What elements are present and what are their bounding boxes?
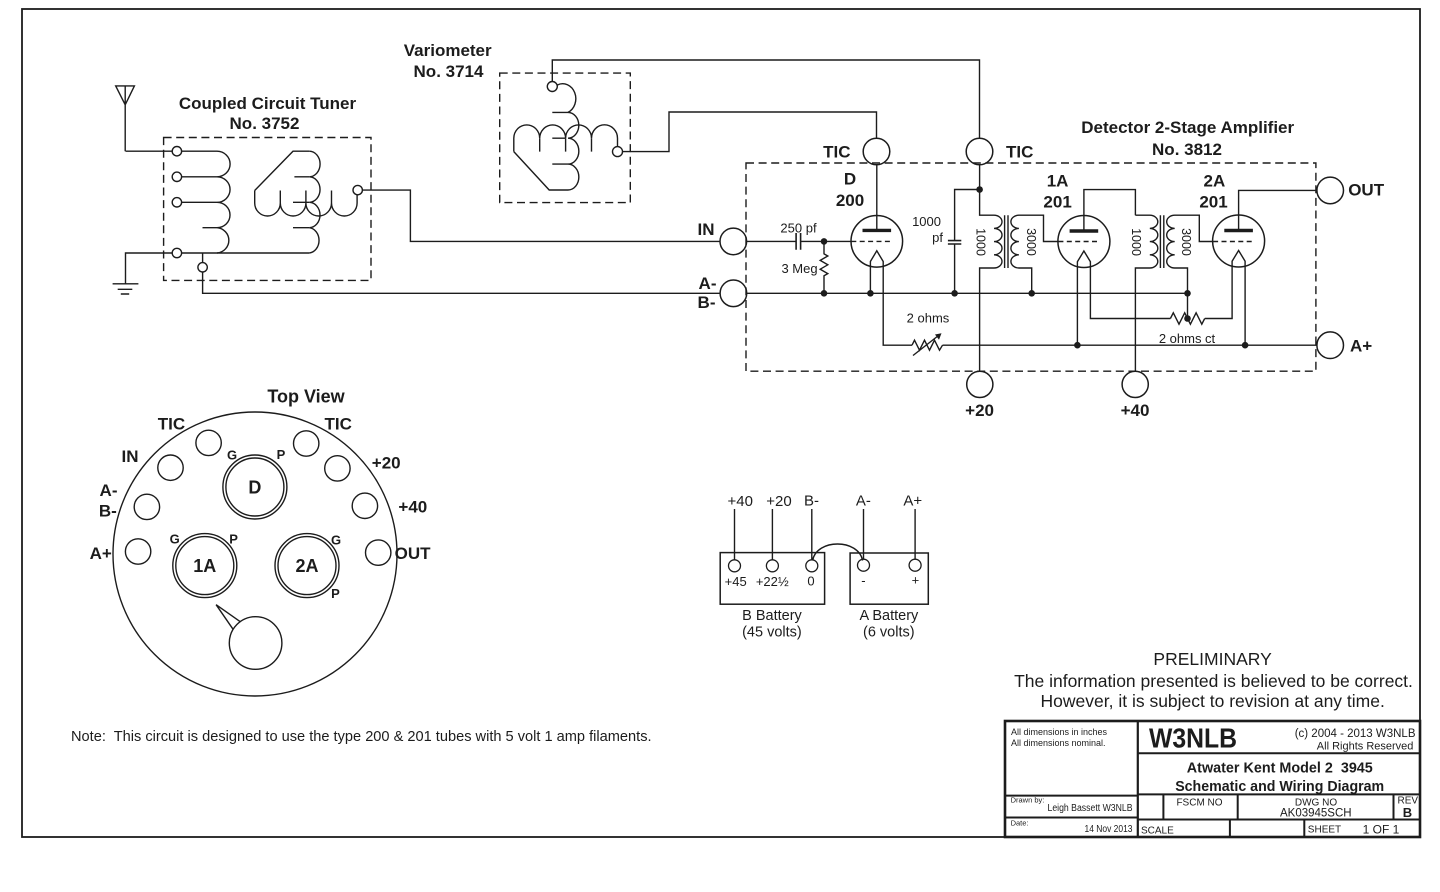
svg-text:No. 3812: No. 3812 <box>1152 140 1222 159</box>
tuner terminal 3 <box>172 198 181 207</box>
B battery terminal 0 <box>806 560 818 572</box>
jumper wire B- to A- <box>813 544 863 561</box>
svg-text:200: 200 <box>836 191 864 210</box>
svg-text:No. 3752: No. 3752 <box>230 114 300 133</box>
wire variometer right to TIC1 <box>623 112 877 152</box>
top view pin A-/B- <box>134 494 159 519</box>
wire A-/B- bus <box>747 292 1188 294</box>
title block outer border <box>1005 721 1420 837</box>
top view socket 1A <box>173 534 237 598</box>
svg-text:+40: +40 <box>727 493 752 510</box>
svg-text:201: 201 <box>1199 192 1227 211</box>
wire antenna to tuner terminal 1 <box>126 150 173 152</box>
variometer box No.3714 <box>500 73 631 203</box>
svg-text:TIC: TIC <box>158 415 185 434</box>
wire IN to capacitor <box>747 240 796 242</box>
terminal OUT <box>1317 177 1344 204</box>
variometer top terminal <box>547 82 557 92</box>
junction node 2A filament on A+ <box>1242 342 1249 349</box>
detector 2-stage amplifier box No.3812 <box>746 163 1316 371</box>
svg-text:2 ohms ct: 2 ohms ct <box>1159 331 1216 346</box>
title block FSCM row cell dividers <box>1163 794 1393 819</box>
terminal A+ <box>1317 332 1344 359</box>
svg-text:All dimensions nominal.: All dimensions nominal. <box>1011 738 1106 748</box>
svg-text:Date:: Date: <box>1011 818 1029 827</box>
junction node C2 top <box>976 186 983 193</box>
svg-text:All dimensions in inches: All dimensions in inches <box>1011 727 1108 737</box>
wire A+ bus <box>943 344 1317 346</box>
svg-text:FSCM NO: FSCM NO <box>1176 798 1222 809</box>
svg-text:14 Nov 2013: 14 Nov 2013 <box>1085 824 1133 835</box>
svg-text:AK03945SCH: AK03945SCH <box>1280 808 1352 820</box>
title block scale row cell dividers <box>1230 820 1304 838</box>
svg-text:1000: 1000 <box>1129 228 1143 256</box>
tube D 200 <box>851 165 912 345</box>
terminal A-/B- <box>720 280 747 307</box>
svg-text:G: G <box>170 532 180 547</box>
svg-text:No. 3714: No. 3714 <box>414 62 484 81</box>
svg-text:All Rights Reserved: All Rights Reserved <box>1317 740 1414 752</box>
svg-text:PRELIMINARY: PRELIMINARY <box>1153 649 1272 669</box>
rheostat 2 ohms <box>912 333 943 355</box>
title block left row dividers <box>1005 796 1138 818</box>
tuner rotor coil L2a <box>255 151 320 253</box>
svg-text:W3NLB: W3NLB <box>1149 723 1237 754</box>
svg-text:Note: This circuit is designe: Note: This circuit is designed to use th… <box>71 729 652 745</box>
svg-text:Coupled Circuit Tuner: Coupled Circuit Tuner <box>179 94 357 113</box>
resistor R1 3 Meg <box>820 241 828 293</box>
transformer T2 core <box>1160 215 1163 268</box>
A battery box <box>850 553 928 604</box>
transformer T1 core <box>1005 215 1008 268</box>
tube 2A 201 <box>1205 190 1317 345</box>
junction node T1 secondary bottom <box>1028 290 1035 297</box>
svg-text:IN: IN <box>698 220 715 239</box>
svg-text:+20: +20 <box>372 453 401 472</box>
title block right row dividers <box>1138 753 1420 819</box>
svg-text:G: G <box>227 448 237 463</box>
svg-text:Detector 2-Stage Amplifier: Detector 2-Stage Amplifier <box>1081 118 1294 137</box>
svg-text:(45 volts): (45 volts) <box>742 625 802 641</box>
junction node grid/C1 <box>821 238 828 245</box>
B battery box <box>720 553 824 605</box>
svg-text:A-: A- <box>100 481 118 500</box>
svg-text:1A: 1A <box>1047 172 1069 191</box>
svg-text:SCALE: SCALE <box>1141 825 1174 836</box>
svg-text:TIC: TIC <box>325 415 352 434</box>
svg-text:2A: 2A <box>295 556 318 576</box>
svg-text:OUT: OUT <box>395 544 432 563</box>
antenna coil L1 (tapped primary) <box>182 151 231 253</box>
B battery terminal +22.5 <box>766 560 778 572</box>
battery lead +40 <box>734 509 736 560</box>
tuner terminal 4 <box>172 248 181 257</box>
svg-text:P: P <box>229 531 238 546</box>
wire tuner bottom bus <box>182 252 310 254</box>
svg-text:A+: A+ <box>1350 337 1372 356</box>
svg-text:+: + <box>912 573 920 588</box>
terminal TIC2 <box>966 138 993 165</box>
svg-text:+40: +40 <box>1121 401 1150 420</box>
top view outline circle <box>113 412 397 696</box>
top view pin A+ <box>125 539 150 564</box>
svg-text:TIC: TIC <box>1006 143 1033 162</box>
B battery terminal +45 <box>729 560 741 572</box>
junction node R1 bottom <box>821 290 828 297</box>
wire tuner tap to A-/B- terminal <box>203 272 720 293</box>
svg-text:Variometer: Variometer <box>404 41 492 60</box>
top view socket D <box>223 455 287 519</box>
svg-text:B-: B- <box>698 293 716 312</box>
wire variometer top to TIC2 <box>552 60 979 138</box>
svg-text:A+: A+ <box>90 544 112 563</box>
svg-text:Top View: Top View <box>267 387 345 407</box>
top view pin IN <box>158 455 183 480</box>
ground <box>113 253 173 294</box>
capacitor C2 1000pf <box>948 190 980 294</box>
variometer rotor coil <box>514 84 579 190</box>
svg-text:Leigh Bassett W3NLB: Leigh Bassett W3NLB <box>1048 803 1133 814</box>
battery lead B- <box>811 509 813 559</box>
wire capacitor to grid node <box>801 240 852 242</box>
svg-text:D: D <box>248 478 261 498</box>
top view pointer <box>216 605 241 630</box>
svg-text:-: - <box>861 573 865 588</box>
svg-text:The information presented is b: The information presented is believed to… <box>1014 671 1413 691</box>
tube 1A 201 <box>1058 190 1171 346</box>
svg-text:3 Meg: 3 Meg <box>781 261 817 276</box>
title block left column divider <box>1137 721 1139 837</box>
terminal IN <box>720 228 747 255</box>
top view pin +20 <box>325 456 350 481</box>
transformer T1 secondary 3000 <box>1011 215 1058 293</box>
resistor R2 2 ohms ct <box>1170 293 1204 324</box>
svg-text:A+: A+ <box>903 492 922 509</box>
svg-text:1A: 1A <box>193 556 216 576</box>
svg-text:Drawn by:: Drawn by: <box>1011 796 1045 805</box>
capacitor C1 250pf <box>796 233 801 250</box>
svg-text:D: D <box>844 170 856 189</box>
antenna <box>116 86 135 151</box>
svg-text:1 OF 1: 1 OF 1 <box>1363 822 1400 836</box>
svg-text:B-: B- <box>804 492 819 509</box>
svg-text:P: P <box>277 447 286 462</box>
svg-text:A-: A- <box>856 492 871 509</box>
terminal +20 <box>967 371 993 397</box>
A battery terminal plus <box>909 559 921 571</box>
transformer T1 primary 1000 <box>980 165 1002 371</box>
svg-text:201: 201 <box>1043 192 1071 211</box>
svg-text:B: B <box>1403 805 1412 820</box>
coupled circuit tuner box No.3752 <box>164 138 371 281</box>
variometer stator coil <box>514 125 618 152</box>
transformer T2 primary 1000 <box>1135 215 1157 371</box>
variometer right terminal <box>613 147 623 157</box>
A battery terminal minus <box>858 559 870 571</box>
svg-text:+20: +20 <box>965 401 994 420</box>
svg-text:2A: 2A <box>1204 172 1226 191</box>
battery lead A+ <box>914 509 916 559</box>
tuner output terminal <box>353 185 362 194</box>
junction node D filament on A-/B- <box>867 290 874 297</box>
svg-text:Schematic and Wiring Diagram: Schematic and Wiring Diagram <box>1175 778 1384 795</box>
svg-text:0: 0 <box>807 574 814 589</box>
svg-text:However, it is subject to revi: However, it is subject to revision at an… <box>1041 691 1385 711</box>
svg-text:3000: 3000 <box>1179 228 1193 256</box>
top view rheostat knob circle <box>229 617 282 670</box>
svg-text:B Battery: B Battery <box>742 608 802 624</box>
svg-text:1000: 1000 <box>912 214 941 229</box>
svg-text:+40: +40 <box>398 498 427 517</box>
svg-text:+22½: +22½ <box>756 574 789 589</box>
battery lead +20 <box>771 509 773 560</box>
transformer T2 secondary 3000 <box>1167 215 1213 293</box>
top view socket 2A <box>275 534 339 598</box>
svg-text:2 ohms: 2 ohms <box>907 311 950 326</box>
svg-text:P: P <box>331 586 340 601</box>
junction node T2 secondary bottom <box>1184 290 1191 297</box>
svg-text:B-: B- <box>99 501 117 520</box>
svg-text:+20: +20 <box>766 493 791 510</box>
svg-text:+45: +45 <box>725 574 747 589</box>
terminal +40 <box>1122 371 1148 397</box>
top view pin TIC right <box>294 431 319 456</box>
svg-text:G: G <box>331 532 341 547</box>
tuner tap terminal (bottom) <box>198 253 207 272</box>
junction node 1A filament on A+ <box>1074 342 1081 349</box>
svg-text:A Battery: A Battery <box>859 608 919 624</box>
svg-text:TIC: TIC <box>823 143 850 162</box>
svg-text:(c) 2004 - 2013 W3NLB: (c) 2004 - 2013 W3NLB <box>1295 728 1416 740</box>
wire tuner output to IN terminal <box>362 190 719 241</box>
top view pin OUT <box>366 540 391 565</box>
svg-text:OUT: OUT <box>1348 181 1385 200</box>
svg-text:A-: A- <box>699 274 717 293</box>
svg-text:250 pf: 250 pf <box>780 220 817 235</box>
svg-text:IN: IN <box>122 447 139 466</box>
svg-text:3000: 3000 <box>1024 228 1038 256</box>
tuner terminal 2 <box>172 172 181 181</box>
top view pin TIC left <box>196 430 221 455</box>
svg-text:SHEET: SHEET <box>1308 825 1341 836</box>
top view pin +40 <box>352 493 377 518</box>
terminal TIC1 <box>863 138 890 165</box>
junction node R2 center tap <box>1184 315 1191 322</box>
junction node C2 bottom <box>951 290 958 297</box>
tuner terminal 1 <box>172 147 181 156</box>
battery lead A- <box>863 509 865 559</box>
svg-text:(6 volts): (6 volts) <box>863 625 915 641</box>
svg-text:pf: pf <box>932 230 943 245</box>
tuner stator coil L2b <box>255 191 357 217</box>
svg-text:1000: 1000 <box>973 228 987 256</box>
svg-text:Atwater Kent Model 2 3945: Atwater Kent Model 2 3945 <box>1187 760 1373 777</box>
